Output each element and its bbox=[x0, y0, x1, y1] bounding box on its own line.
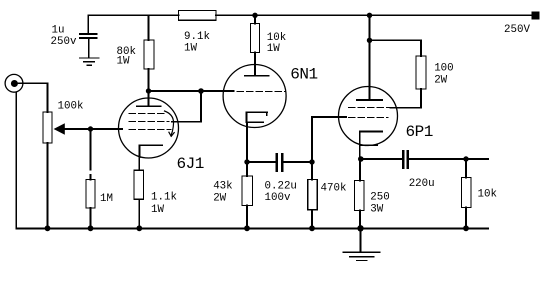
svg-text:250V: 250V bbox=[504, 24, 530, 36]
6P1 plate bbox=[357, 40, 382, 100]
svg-text:6J1: 6J1 bbox=[177, 155, 204, 173]
junction dot wiper/1M bbox=[88, 126, 93, 131]
wire wiper to 6J1 grid bbox=[65, 128, 122, 130]
6N1 cathode bbox=[247, 112, 268, 122]
6P1 cathode bbox=[360, 132, 383, 146]
svg-text:470k: 470k bbox=[321, 183, 347, 195]
wire jack to pot top bbox=[17, 83, 48, 112]
capacitor 1u (filter cap) bbox=[80, 15, 97, 57]
wire 6N1 cathode node bbox=[247, 161, 276, 163]
6N1 cathode lead bbox=[246, 122, 248, 162]
wire top B+ rail bbox=[88, 14, 532, 16]
svg-text:220u: 220u bbox=[409, 178, 435, 190]
resistor 470k bbox=[308, 162, 317, 228]
svg-text:1W: 1W bbox=[117, 56, 130, 68]
resistor 1.1k (6J1 cathode) bbox=[134, 145, 144, 228]
wire cap to 470k node bbox=[283, 161, 312, 163]
svg-text:6N1: 6N1 bbox=[290, 66, 317, 84]
resistor 80k bbox=[144, 15, 154, 91]
6N1 grid (dashed) bbox=[237, 91, 286, 93]
svg-text:6P1: 6P1 bbox=[406, 123, 433, 141]
junction dot bus/470k bbox=[309, 225, 315, 231]
6J1 plate bbox=[137, 91, 161, 106]
junction dot 6P1 cathode bbox=[358, 156, 364, 162]
wire 6J1 screen to supply node bbox=[172, 91, 201, 122]
wire 100R top to plate node bbox=[370, 40, 422, 56]
svg-text:9.1k: 9.1k bbox=[184, 31, 210, 43]
wire 6P1 cathode node bbox=[361, 158, 403, 160]
svg-text:100: 100 bbox=[434, 62, 453, 74]
wire plate node to rail bbox=[369, 15, 371, 40]
ground (main) bbox=[343, 228, 380, 260]
6J1 beam arrow bbox=[165, 111, 175, 136]
svg-text:1u: 1u bbox=[52, 25, 65, 37]
resistor 1M bbox=[86, 129, 95, 228]
6J1 grid g1 (dashed) bbox=[129, 129, 171, 131]
junction dot bus/1.1k bbox=[136, 225, 142, 231]
junction dot screen tap bbox=[198, 88, 204, 94]
resistor 43k bbox=[242, 162, 253, 228]
tube 6J1 envelope bbox=[119, 98, 179, 158]
junction dot bus/1M bbox=[88, 225, 94, 231]
tube 6N1 envelope bbox=[223, 65, 286, 128]
wire 6P1 screen to 100R bbox=[391, 89, 422, 108]
svg-text:43k: 43k bbox=[213, 181, 232, 193]
junction dot 470k/6P1 grid bbox=[309, 159, 314, 164]
ground (filter cap) bbox=[80, 58, 99, 65]
capacitor 220u (cathode bypass) bbox=[403, 151, 408, 168]
capacitor 0.22u (coupling) bbox=[277, 154, 282, 171]
junction dot 6J1 plate/80k bbox=[146, 88, 151, 93]
svg-text:100v: 100v bbox=[265, 192, 291, 204]
6P1 grid g1 (dashed) bbox=[348, 117, 388, 119]
6J1 grid g3 (dashed) bbox=[129, 113, 166, 115]
junction dot bus/43k bbox=[244, 225, 250, 231]
svg-text:100k: 100k bbox=[58, 101, 84, 113]
wire grid riser to 6P1 bbox=[312, 117, 346, 162]
6J1 cathode bbox=[140, 145, 163, 157]
6J1 grid g2 (dashed) bbox=[129, 121, 169, 123]
pot wiper arrow bbox=[54, 123, 65, 135]
junction dot rail/6P1 bbox=[367, 13, 372, 18]
junction dot output top bbox=[463, 156, 468, 161]
input jack bbox=[5, 74, 23, 92]
svg-text:250v: 250v bbox=[51, 36, 77, 48]
wire bottom ground bus bbox=[16, 227, 488, 229]
wire 220u to output node bbox=[409, 158, 488, 160]
svg-text:1W: 1W bbox=[267, 43, 280, 55]
svg-text:250: 250 bbox=[370, 191, 389, 203]
svg-text:1.1k: 1.1k bbox=[151, 192, 177, 204]
junction dot plate node bbox=[367, 38, 372, 43]
resistor 10k (output load) bbox=[462, 159, 472, 228]
junction dot 6N1 cathode bbox=[244, 159, 249, 164]
svg-text:2W: 2W bbox=[434, 74, 447, 86]
wire 6J1 plate node to 6N1 grid bbox=[149, 90, 234, 92]
6P1 grid g2 (dashed) bbox=[348, 107, 390, 109]
6N1 plate bbox=[245, 75, 269, 77]
svg-text:3W: 3W bbox=[370, 204, 383, 216]
potentiometer 100k bbox=[43, 112, 52, 143]
svg-text:0.22u: 0.22u bbox=[265, 180, 297, 192]
resistor 250 3W (6P1 cathode) bbox=[355, 159, 365, 228]
junction dot bus/250R bbox=[357, 225, 363, 231]
6P1 cathode lead bbox=[359, 145, 362, 159]
tube 6P1 envelope bbox=[339, 87, 398, 146]
junction dot rail/10k bbox=[252, 13, 257, 18]
resistor 9.1k bbox=[179, 11, 217, 21]
svg-text:2W: 2W bbox=[213, 193, 226, 205]
terminal 250V bbox=[532, 11, 540, 19]
resistor 100 2W (screen) bbox=[416, 56, 426, 89]
wire jack ground to bottom bus bbox=[15, 92, 17, 228]
junction dot bus/pot bbox=[45, 225, 51, 231]
svg-text:10k: 10k bbox=[478, 188, 497, 200]
junction dot output bottom bbox=[463, 225, 469, 231]
svg-text:1M: 1M bbox=[100, 193, 113, 205]
wire pot bottom to bus bbox=[47, 143, 49, 228]
svg-text:1W: 1W bbox=[151, 204, 164, 216]
resistor 10k (6N1 plate load) bbox=[251, 15, 260, 75]
svg-text:1W: 1W bbox=[184, 43, 197, 55]
